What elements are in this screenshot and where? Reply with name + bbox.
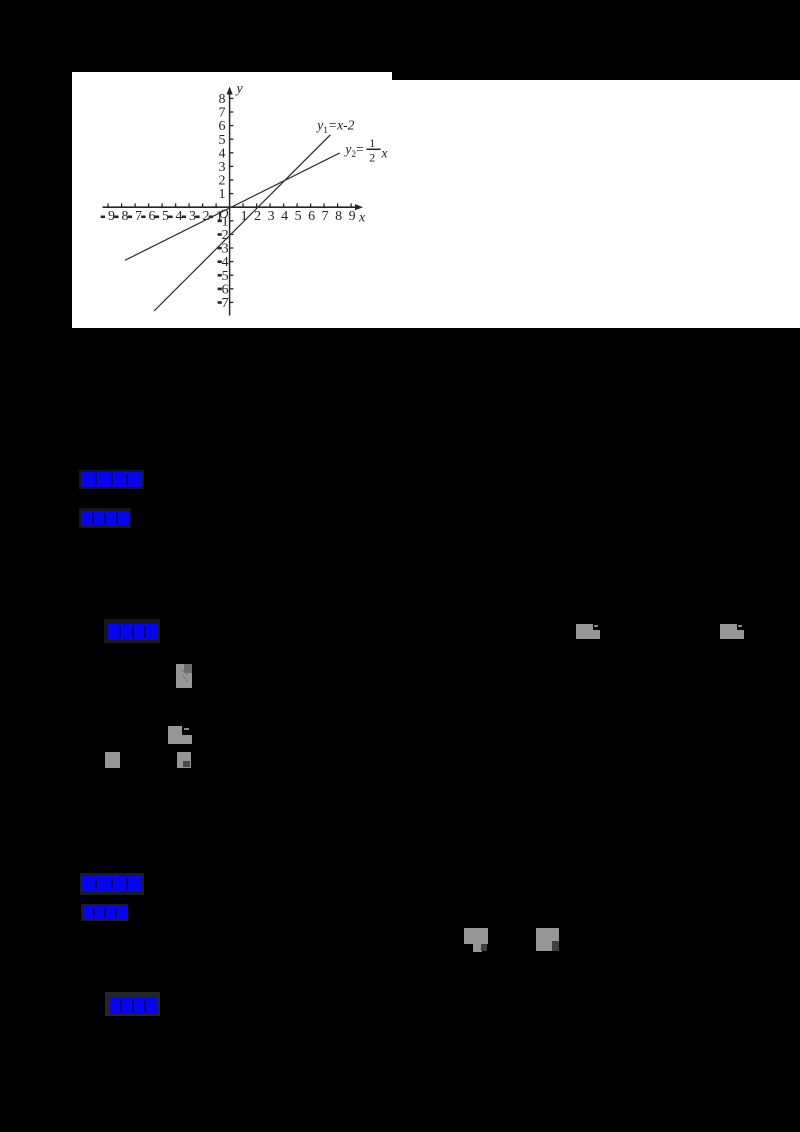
svg-text:4: 4 <box>175 209 182 224</box>
svg-text:9: 9 <box>108 209 115 224</box>
equation image blob y2 (bottom) <box>536 928 559 943</box>
label 【答案】 #1 blue text <box>81 472 142 487</box>
equation image blob x2 (row 1 right) <box>720 624 744 640</box>
label 【解析】 #2 blue text <box>83 906 128 920</box>
label 【详解】 #2 highlight box <box>105 992 160 1016</box>
svg-text:6: 6 <box>148 209 155 224</box>
svg-text:1: 1 <box>369 136 375 150</box>
line y2 = x/2 <box>125 152 340 259</box>
y-axis line <box>228 92 230 316</box>
svg-text:7: 7 <box>135 209 142 224</box>
equation image blob small square left <box>105 752 120 769</box>
svg-text:6: 6 <box>308 209 315 224</box>
svg-text:3: 3 <box>221 241 228 256</box>
svg-text:3: 3 <box>218 160 225 175</box>
svg-text:4: 4 <box>221 255 228 270</box>
svg-text:6: 6 <box>221 282 228 297</box>
equation image blob k value <box>168 726 192 744</box>
svg-text:x: x <box>358 210 366 225</box>
svg-text:1: 1 <box>218 187 225 202</box>
label 【详解】 #2 blue text <box>110 997 157 1014</box>
svg-text:1: 1 <box>240 209 247 224</box>
equation image blob y1 (bottom) <box>464 928 489 944</box>
svg-text:7: 7 <box>321 209 328 224</box>
svg-text:y: y <box>234 81 243 96</box>
svg-text:2: 2 <box>218 173 225 188</box>
equation image blob x1 (row 1 left) <box>576 624 601 640</box>
label 【解析】 #1 blue text <box>81 511 129 526</box>
label 【答案】 #2 blue text <box>81 876 142 892</box>
svg-text:7: 7 <box>218 105 225 120</box>
svg-text:y1=x-2: y1=x-2 <box>315 117 354 136</box>
svg-text:4: 4 <box>281 209 288 224</box>
label 【答案】 #2 highlight box <box>80 873 144 895</box>
svg-text:2: 2 <box>369 150 375 164</box>
y-axis arrowhead <box>226 86 232 94</box>
svg-text:5: 5 <box>221 268 228 283</box>
svg-text:y2=: y2= <box>343 141 363 160</box>
white panel: graph figure background <box>72 72 393 329</box>
equation image blob fraction (1/2)x <box>176 664 192 688</box>
x-axis positive number labels <box>240 209 355 224</box>
x-axis arrowhead <box>355 204 363 210</box>
svg-text:8: 8 <box>335 209 342 224</box>
label y2 = (1/2)x <box>343 136 387 164</box>
svg-text:5: 5 <box>218 132 225 147</box>
svg-text:5: 5 <box>162 209 169 224</box>
x-axis line <box>102 206 356 208</box>
y-axis negative number labels <box>217 214 228 311</box>
x-axis ticks <box>108 203 351 207</box>
y-axis ticks <box>229 98 233 302</box>
svg-text:3: 3 <box>189 209 196 224</box>
equation image blob small square right with subscript <box>177 752 191 769</box>
svg-text:7: 7 <box>221 296 228 311</box>
svg-text:3: 3 <box>267 209 274 224</box>
svg-text:2: 2 <box>254 209 261 224</box>
label 【答案】 #1 highlight box <box>79 470 144 489</box>
svg-text:1: 1 <box>221 214 228 229</box>
svg-text:2: 2 <box>202 209 209 224</box>
y-axis positive number labels <box>218 92 225 202</box>
svg-text:9: 9 <box>348 209 355 224</box>
svg-text:6: 6 <box>218 119 225 134</box>
svg-text:8: 8 <box>121 209 128 224</box>
white panel: right highlight band <box>392 80 800 329</box>
line y1 = x-2 <box>154 134 330 310</box>
x-axis negative number labels <box>100 209 222 224</box>
svg-text:5: 5 <box>294 209 301 224</box>
svg-text:4: 4 <box>218 146 225 161</box>
label 【详解】 #1 highlight box <box>104 619 160 643</box>
svg-text:x: x <box>380 145 387 160</box>
svg-text:8: 8 <box>218 92 225 107</box>
label 【解析】 #1 highlight box <box>79 508 131 528</box>
label 【详解】 #1 blue text <box>108 624 158 640</box>
label 【解析】 #2 highlight box <box>81 904 128 921</box>
